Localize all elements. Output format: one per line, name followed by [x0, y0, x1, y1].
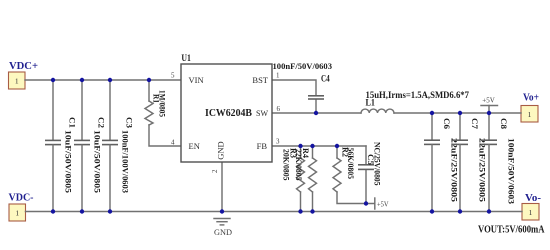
wire: C5 bottom — [365, 170, 367, 204]
svg-text:VIN: VIN — [189, 75, 204, 85]
port VDC- — [9, 204, 26, 221]
svg-text:GND: GND — [216, 141, 226, 159]
svg-text:1: 1 — [15, 209, 19, 218]
wire: R1 top — [148, 80, 150, 101]
junction dots bottom rail — [51, 209, 55, 213]
port Vo- — [522, 204, 539, 221]
junction dots top rail — [51, 78, 55, 82]
wire: +5V feedback return — [337, 192, 375, 204]
capacitor C6 — [424, 113, 460, 212]
power +5V (feedback) — [375, 198, 389, 209]
op-amp U1 ICW6204B — [181, 53, 272, 162]
resistor R4 — [294, 146, 317, 212]
capacitor C7 — [452, 113, 488, 212]
svg-text:1: 1 — [529, 208, 533, 217]
capacitor C8 — [481, 113, 517, 212]
svg-text:GND: GND — [214, 227, 232, 237]
capacitor C5 — [358, 142, 382, 186]
wire: EN line from R1 — [149, 125, 181, 146]
wire: BST to C4 — [272, 80, 316, 95]
svg-text:100nF/50V/0603: 100nF/50V/0603 — [507, 138, 517, 204]
capacitor C3 — [102, 80, 135, 212]
svg-text:SW: SW — [256, 108, 268, 118]
wire: C4 bottom to SW — [315, 100, 317, 114]
svg-text:C2: C2 — [97, 117, 107, 128]
junction dots SW rail — [314, 111, 318, 115]
svg-text:10uF/50V/0805: 10uF/50V/0805 — [64, 130, 74, 193]
capacitor C2 — [74, 80, 107, 212]
svg-text:+5V: +5V — [482, 96, 495, 105]
port Vo+ — [521, 106, 538, 123]
ground — [214, 219, 232, 238]
svg-text:U1: U1 — [181, 53, 191, 63]
svg-text:1: 1 — [276, 72, 280, 80]
svg-text:C1: C1 — [68, 117, 78, 128]
capacitor C4 — [273, 61, 333, 99]
svg-text:22uF/25V/0805: 22uF/25V/0805 — [450, 138, 460, 202]
svg-text:NC/25V/0805: NC/25V/0805 — [372, 142, 382, 186]
svg-text:4: 4 — [171, 138, 175, 146]
power +5V (output) — [481, 96, 498, 114]
svg-text:C8: C8 — [499, 118, 509, 129]
svg-text:VOUT:5V/600mA: VOUT:5V/600mA — [478, 225, 545, 236]
svg-text:22uF/25V/0805: 22uF/25V/0805 — [478, 138, 488, 202]
svg-text:Vo+: Vo+ — [523, 91, 539, 103]
svg-text:3: 3 — [276, 138, 280, 146]
svg-text:6: 6 — [277, 105, 281, 113]
svg-text:BST: BST — [252, 75, 268, 85]
inductor L1 — [361, 90, 469, 113]
svg-text:FB: FB — [257, 141, 268, 151]
svg-text:C7: C7 — [470, 118, 480, 130]
svg-text:VDC-: VDC- — [9, 192, 34, 204]
resistor R1 — [145, 90, 167, 125]
resistor R2 — [333, 146, 356, 192]
svg-text:100nF/50V/0603: 100nF/50V/0603 — [273, 61, 333, 71]
svg-text:56K/0805: 56K/0805 — [346, 148, 356, 180]
svg-text:+5V: +5V — [377, 200, 389, 209]
svg-text:20K/0805: 20K/0805 — [282, 149, 292, 181]
wire: bottom VDC- rail — [26, 211, 523, 213]
svg-text:C4: C4 — [321, 74, 330, 84]
svg-text:5: 5 — [171, 72, 175, 80]
svg-text:1: 1 — [15, 77, 19, 86]
svg-text:C6: C6 — [442, 118, 452, 129]
svg-text:Vo-: Vo- — [525, 192, 541, 204]
svg-text:EN: EN — [189, 141, 200, 151]
svg-text:ICW6204B: ICW6204B — [205, 108, 252, 119]
svg-text:10uF/50V/0805: 10uF/50V/0805 — [93, 130, 103, 193]
wire: top VIN rail — [25, 79, 181, 81]
svg-text:15uH,Irms=1.5A,SMD6.6*7: 15uH,Irms=1.5A,SMD6.6*7 — [366, 90, 470, 100]
svg-text:VDC+: VDC+ — [9, 60, 38, 72]
resistor R3 — [282, 146, 305, 212]
svg-text:C3: C3 — [125, 117, 135, 128]
svg-text:100nF/100V/0603: 100nF/100V/0603 — [121, 130, 131, 193]
wire: FB line — [272, 145, 366, 147]
svg-text:1: 1 — [528, 110, 532, 119]
capacitor C1 — [45, 80, 78, 212]
junction dots FB line — [298, 144, 302, 148]
wire: SW output rail left part — [272, 112, 361, 114]
svg-text:1M/0805: 1M/0805 — [157, 90, 167, 117]
port VDC+ — [9, 72, 26, 89]
svg-text:2: 2 — [211, 169, 219, 173]
svg-text:22K/0805: 22K/0805 — [294, 149, 304, 181]
wire: SW output rail right part — [394, 112, 521, 114]
wire: GND pin 2 — [221, 162, 223, 212]
junction dot +5V wire — [364, 201, 368, 205]
